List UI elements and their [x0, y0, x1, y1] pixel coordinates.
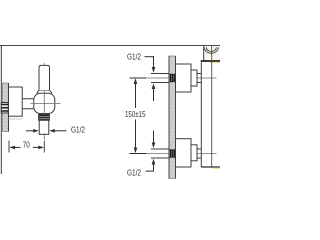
dimension 70: extension line at outlet axis — [43, 141, 45, 153]
faint cream tint in handle cell — [204, 46, 220, 61]
bottom S-union nut — [191, 145, 197, 161]
faint yellow artifact under bottom edge — [213, 167, 220, 169]
outlet tube (left view) — [39, 120, 49, 134]
bottom supply pipe stub in wall — [151, 149, 169, 158]
body vertical centerline — [43, 63, 45, 140]
threaded nipple through wall (top inlet) — [169, 74, 175, 82]
dimension 70: right arrow — [33, 146, 44, 150]
body vertical centerline — [211, 46, 213, 168]
dimension 70: left arrow — [9, 146, 20, 150]
handle bowl outer arc — [204, 47, 218, 53]
bottom connector pipe to body — [197, 149, 201, 158]
frame top border — [0, 45, 220, 47]
top connector pipe to body — [197, 74, 201, 83]
opposing arrow above bottom pipe (points down) — [152, 131, 156, 149]
body top thick edge — [201, 60, 220, 62]
dimension 150±15: top extension line — [130, 77, 147, 79]
top supply pipe stub in wall — [151, 74, 169, 83]
top S-union nut — [191, 70, 197, 86]
svg-text:150±15: 150±15 — [125, 109, 146, 119]
opposing arrow under top pipe (points up) — [152, 83, 156, 101]
threaded outlet collar under body (left view) — [39, 114, 50, 120]
escutcheon of bottom S-union — [176, 139, 192, 167]
body bottom edge — [201, 166, 220, 168]
dimension 70: extension line at wall face — [8, 141, 10, 153]
body horizontal centerline — [31, 103, 61, 105]
handle cylinder (left view) — [39, 65, 50, 90]
wall (left view) hatched section — [3, 83, 9, 132]
handle stem cone (left view) — [37, 90, 53, 93]
svg-text:70: 70 — [23, 139, 30, 149]
faint yellow artifact under top edge — [210, 61, 220, 63]
handle (front view) left edge — [203, 46, 205, 61]
handle bowl inner arc — [206, 47, 216, 51]
frame left border — [0, 45, 2, 174]
G1/2 callout left arrow (points right at outlet) — [26, 129, 39, 133]
G1/2 bottom leader with up arrow — [146, 159, 156, 172]
threaded nipple through wall (left view) — [1, 103, 8, 114]
dimension 150±15: bottom extension line — [130, 153, 147, 155]
dimension 150±15: line with outward arrows — [134, 78, 138, 153]
top inlet centerline — [130, 77, 217, 79]
svg-text:G1/2: G1/2 — [127, 51, 141, 61]
G1/2 top leader with down arrow — [145, 56, 156, 72]
flange lower faint edge — [9, 118, 23, 120]
threaded nipple through wall (bottom inlet) — [169, 150, 175, 158]
wall flange / escutcheon (left view) — [9, 87, 23, 116]
G1/2 callout right arrow (points left at outlet) — [49, 129, 66, 133]
svg-text:G1/2: G1/2 — [71, 125, 85, 135]
valve body (left view) — [34, 93, 55, 113]
bottom inlet centerline — [130, 153, 217, 155]
mixer body (front view, cropped at right edge) — [200, 61, 202, 167]
svg-text:G1/2: G1/2 — [127, 167, 141, 177]
escutcheon of top S-union — [176, 64, 192, 92]
wall (right view) hatched section — [169, 56, 176, 179]
connection pipe flange to body (left view) — [22, 99, 34, 109]
